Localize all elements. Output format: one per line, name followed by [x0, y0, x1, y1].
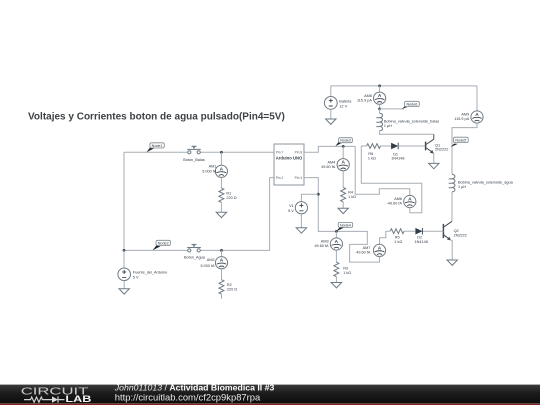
- svg-text:AM3: AM3: [321, 240, 329, 244]
- svg-text:115.9 pA: 115.9 pA: [357, 98, 372, 102]
- wire stub below R2: [221, 294, 223, 299]
- ground below R4: [338, 208, 348, 213]
- svg-text:AM7: AM7: [363, 246, 371, 250]
- resistor R4: [341, 187, 356, 202]
- svg-text:1 kΩ: 1 kΩ: [394, 240, 402, 244]
- wire AM6 bottom loop to R6: [361, 146, 422, 213]
- svg-text:Node2: Node2: [158, 241, 169, 245]
- svg-text:-49.60 fA: -49.60 fA: [387, 202, 403, 206]
- ammeter AM9: [454, 111, 483, 123]
- svg-text:220 Ω: 220 Ω: [227, 288, 237, 292]
- wire Node2 row left segment: [124, 249, 188, 251]
- ground below R3: [331, 283, 341, 288]
- svg-text:2N2222: 2N2222: [435, 148, 448, 152]
- resistor R1: [219, 188, 237, 203]
- resistor R2: [219, 280, 237, 295]
- inductor Bobina_valvula_solenoide_agua: [449, 174, 514, 221]
- wire Pin8 to Node3 rail: [304, 146, 355, 152]
- svg-text:AM2: AM2: [207, 258, 215, 262]
- ammeter AM8: [357, 92, 386, 104]
- ammeter AM1: [202, 165, 227, 178]
- junction node2-AM2: [220, 249, 223, 252]
- node flag Node1: [147, 143, 165, 152]
- svg-text:Pin 8: Pin 8: [295, 150, 303, 154]
- ammeter AM7: [356, 244, 385, 256]
- node flag Node4: [336, 222, 352, 231]
- wire R3 to ground: [335, 277, 337, 283]
- junction node1-AM1: [220, 151, 223, 154]
- svg-text:49.60 fA: 49.60 fA: [356, 251, 371, 255]
- svg-text:5.000 fA: 5.000 fA: [202, 169, 217, 173]
- svg-text:R4: R4: [348, 191, 353, 195]
- ground below Q2 emitter: [447, 260, 457, 265]
- wire Node4 to AM3: [335, 231, 337, 238]
- junction Node4: [335, 230, 338, 233]
- svg-text:AM8: AM8: [364, 94, 372, 98]
- svg-text:Node6: Node6: [406, 103, 417, 107]
- junction AM8-Node6-coil: [378, 108, 381, 111]
- svg-text:V1: V1: [289, 204, 294, 208]
- svg-text:5.000 fA: 5.000 fA: [200, 264, 215, 268]
- svg-text:Bateria: Bateria: [339, 100, 352, 104]
- svg-text:115.9 pA: 115.9 pA: [454, 117, 469, 121]
- wire R5 to AM7 top step: [380, 231, 391, 244]
- svg-text:Arduino UNO: Arduino UNO: [276, 156, 303, 161]
- svg-text:R2: R2: [227, 283, 232, 287]
- svg-text:R1: R1: [226, 191, 231, 195]
- svg-text:Node4: Node4: [340, 223, 351, 227]
- voltage source V1 5V: [288, 202, 307, 214]
- resistor R6: [367, 144, 381, 161]
- Arduino UNO U1: [274, 144, 304, 185]
- svg-text:Pin 2: Pin 2: [276, 176, 284, 180]
- wire AM2 to R2: [221, 269, 223, 280]
- wire AM3 to R3: [335, 250, 337, 262]
- svg-text:1 kΩ: 1 kΩ: [368, 156, 376, 160]
- svg-text:AM1: AM1: [209, 165, 217, 169]
- resistor R5: [390, 229, 404, 244]
- diode D1 1N4148: [391, 143, 404, 161]
- voltage source Fuente_del_Arduino: [118, 268, 167, 281]
- svg-text:49.60 fA: 49.60 fA: [314, 244, 329, 248]
- wire stub to Node6: [380, 108, 404, 110]
- svg-text:Bobina_valvula_solenoide_agua: Bobina_valvula_solenoide_agua: [458, 180, 514, 184]
- svg-text:Node1: Node1: [152, 144, 163, 148]
- svg-text:Boton_Agua: Boton_Agua: [184, 255, 206, 259]
- svg-text:1N4148: 1N4148: [391, 157, 404, 161]
- svg-text:5 V: 5 V: [288, 209, 294, 213]
- wire Node2 row right segment to Pin2: [200, 178, 274, 251]
- node flag Node3: [335, 138, 352, 147]
- wire Node1 row right segment to Pin7: [200, 151, 274, 153]
- svg-text:Node5: Node5: [455, 139, 466, 143]
- node flag Node6: [402, 101, 420, 109]
- resistor R3: [334, 262, 351, 277]
- transistor Q1 2N2222: [426, 134, 449, 163]
- svg-text:Node3: Node3: [340, 139, 351, 143]
- ground below R1: [216, 212, 226, 217]
- voltage source Bateria 12V: [324, 86, 352, 119]
- junction node3-AM4: [342, 145, 345, 148]
- svg-text:Pin 4: Pin 4: [295, 176, 303, 180]
- wire AM7 bottom S-loop to Node4: [336, 231, 379, 262]
- logo resistor-diode glyph: [24, 396, 65, 402]
- wire AM1 to R1: [220, 177, 222, 188]
- wire node3 rail down-step to AM6: [355, 146, 410, 195]
- svg-text:AM9: AM9: [461, 113, 469, 117]
- wire junction to AM1: [220, 152, 222, 165]
- svg-text:1 kΩ: 1 kΩ: [343, 271, 351, 275]
- svg-text:Boton_Balas: Boton_Balas: [183, 158, 205, 162]
- wire AM8 to coil junction: [379, 104, 381, 109]
- svg-text:1 μH: 1 μH: [384, 124, 392, 128]
- ammeter AM6: [387, 195, 416, 207]
- junction node2-Fuente: [123, 249, 126, 252]
- svg-text:http://circuitlab.com/cf2cp9kp: http://circuitlab.com/cf2cp9kp87rpa: [115, 392, 261, 402]
- wire R1 to ground: [220, 202, 222, 212]
- wire rail to AM8: [379, 86, 381, 92]
- svg-text:R3: R3: [343, 266, 348, 270]
- pushbutton Boton_Balas: [183, 146, 205, 162]
- wire left vertical Node1-to-Node2: [123, 152, 125, 250]
- svg-text:1N4148: 1N4148: [415, 240, 428, 244]
- ground below Bateria: [326, 119, 336, 124]
- ammeter AM2: [200, 257, 227, 269]
- wire Fuente to ground: [123, 281, 125, 289]
- ground below Q1 emitter: [429, 163, 439, 168]
- svg-text:AM4: AM4: [327, 160, 335, 164]
- wire Pin4 to V1 and Node4: [304, 178, 336, 232]
- svg-text:1 μH: 1 μH: [458, 185, 466, 189]
- ground below Fuente: [119, 289, 129, 294]
- wire node3 to AM4: [342, 146, 344, 158]
- svg-text:1 kΩ: 1 kΩ: [348, 195, 356, 199]
- pushbutton Boton_Agua: [184, 244, 206, 259]
- svg-text:2N2222: 2N2222: [454, 233, 467, 237]
- wire Node1 row left segment: [124, 151, 188, 153]
- svg-text:AM6: AM6: [394, 197, 402, 201]
- wire junction to AM2: [221, 250, 223, 256]
- svg-text:Pin 7: Pin 7: [276, 150, 284, 154]
- svg-text:Voltajes y Corrientes boton de: Voltajes y Corrientes boton de agua puls…: [28, 112, 285, 123]
- diode D2 1N4148: [415, 228, 428, 244]
- svg-text:Bobina_valvula_solenoide_balas: Bobina_valvula_solenoide_balas: [384, 119, 439, 123]
- node flag Node5: [451, 137, 468, 147]
- inductor Bobina_valvula_solenoide_balas: [376, 109, 439, 134]
- svg-text:49.60 fA: 49.60 fA: [321, 165, 336, 169]
- wire Q2 base to D2: [422, 230, 443, 232]
- wire AM9 to agua coil top: [452, 123, 477, 174]
- wire D1 to Q1 base: [398, 145, 426, 147]
- wire D2 to R5: [404, 230, 415, 232]
- junction rail-AM8: [378, 85, 381, 88]
- svg-text:220 Ω: 220 Ω: [226, 196, 236, 200]
- svg-text:Fuente_del_Arduino: Fuente_del_Arduino: [133, 270, 167, 274]
- svg-text:John011013 / Actividad Biomedi: John011013 / Actividad Biomedica II #3: [114, 382, 275, 392]
- wire top rail Bateria to AM9: [331, 85, 477, 87]
- wire R4 to ground: [342, 202, 344, 208]
- junction Pin4-V1: [317, 193, 320, 196]
- svg-text:LAB: LAB: [65, 395, 91, 405]
- wire junction to V1: [301, 194, 318, 201]
- wire AM4 to R4: [342, 171, 344, 188]
- ammeter AM3: [314, 238, 342, 250]
- wire node2 junction to Fuente: [123, 250, 125, 268]
- wire R6 to D1: [380, 145, 391, 147]
- wire rail corner down to AM9: [476, 86, 478, 111]
- ground below V1: [296, 228, 306, 233]
- wire V1 to ground: [300, 214, 302, 228]
- svg-text:12 V: 12 V: [339, 105, 347, 109]
- svg-text:5 V: 5 V: [133, 275, 139, 279]
- node flag Node2: [153, 240, 171, 250]
- transistor Q2 2N2222: [443, 221, 467, 260]
- ammeter AM4: [321, 159, 349, 171]
